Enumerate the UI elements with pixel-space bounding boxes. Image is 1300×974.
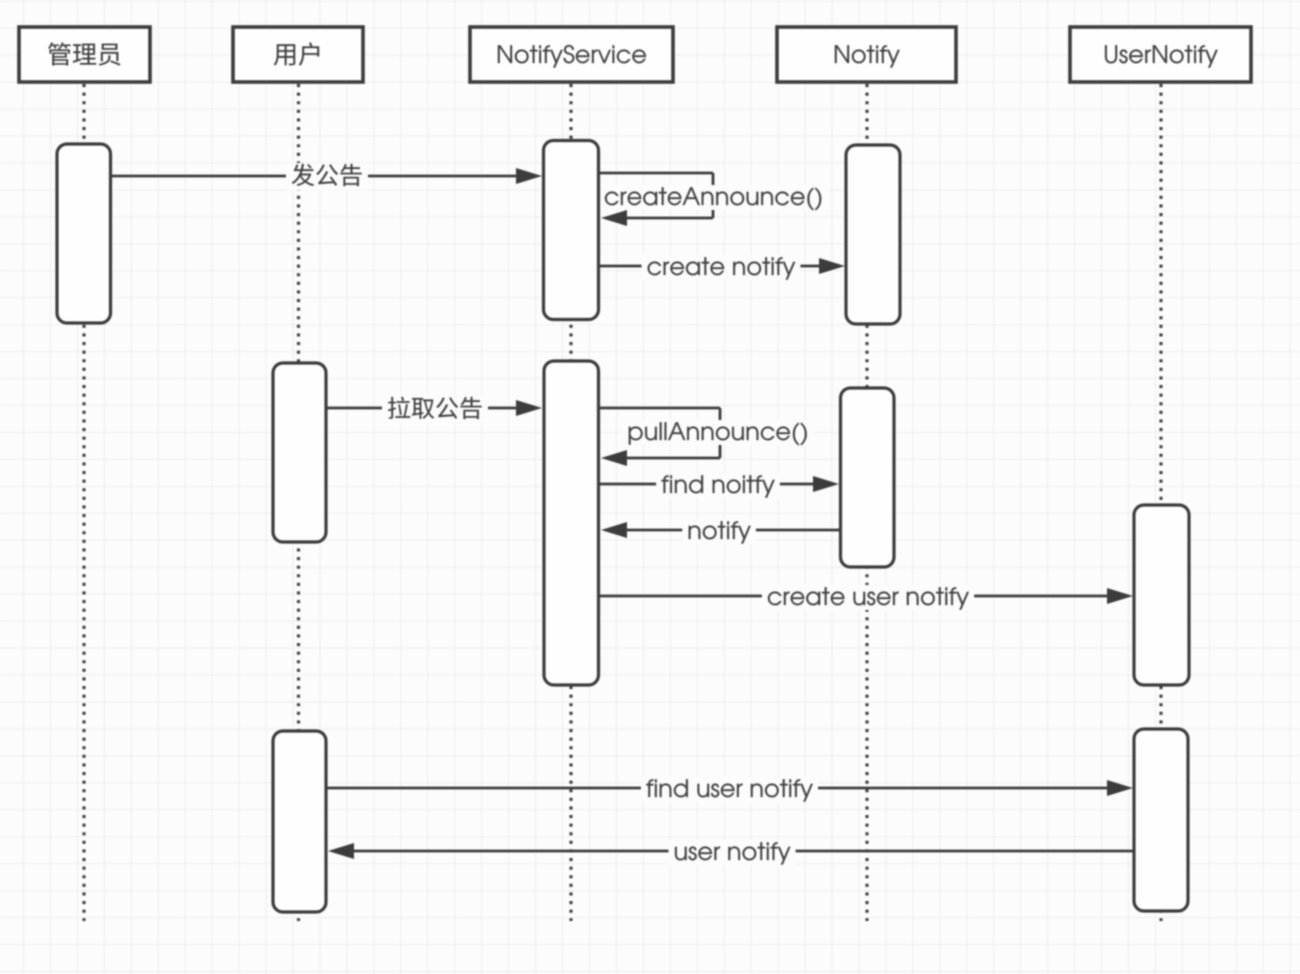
activation 管理员 A1: [57, 144, 111, 323]
participant NotifyService: [470, 27, 673, 82]
message user notify (UserNotify to 用户): [328, 840, 1134, 865]
message 发公告 (管理员 to NotifyService): [110, 163, 542, 190]
message create user notify (NotifyService to UserNotify): [599, 585, 1133, 610]
activation Notify C1: [846, 145, 900, 324]
participant UserNotify: [1070, 27, 1251, 82]
lifeline UserNotify: [1159, 84, 1162, 921]
activation NotifyService B1: [544, 141, 599, 320]
message find noitfy (NotifyService to Notify): [599, 473, 839, 498]
activation Notify C2: [841, 388, 895, 567]
activation UserNotify D1: [1134, 505, 1189, 685]
message createAnnounce() self-call on NotifyService: [599, 173, 828, 226]
activation UserNotify D2: [1134, 729, 1188, 911]
activation 用户 A2: [273, 363, 326, 542]
lifeline Notify: [865, 84, 868, 921]
message pullAnnounce() self-call on NotifyService: [599, 408, 814, 466]
lifeline 管理员: [82, 84, 85, 921]
participant 管理员: [19, 27, 150, 82]
lifeline NotifyService: [569, 84, 572, 921]
lifeline 用户: [297, 84, 300, 921]
activation 用户 A3: [273, 731, 326, 912]
message 拉取公告 (用户 to NotifyService): [326, 396, 542, 423]
participant Notify: [777, 27, 956, 82]
participant 用户: [233, 27, 363, 82]
message find user notify (用户 to UserNotify): [326, 777, 1133, 802]
message notify (Notify to NotifyService): [601, 519, 841, 544]
activation NotifyService B2: [544, 361, 599, 685]
message create notify (NotifyService to Notify): [599, 255, 845, 280]
